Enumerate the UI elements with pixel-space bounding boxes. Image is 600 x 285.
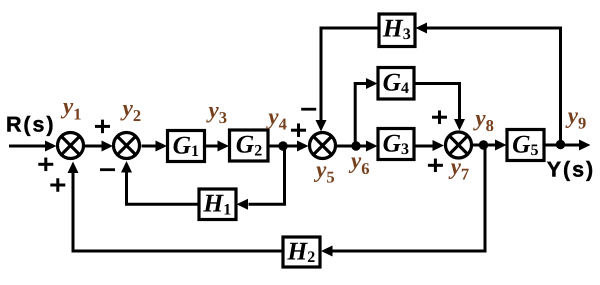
svg-text:R(s): R(s) [6,113,55,137]
svg-text:Y(s): Y(s) [547,157,595,181]
